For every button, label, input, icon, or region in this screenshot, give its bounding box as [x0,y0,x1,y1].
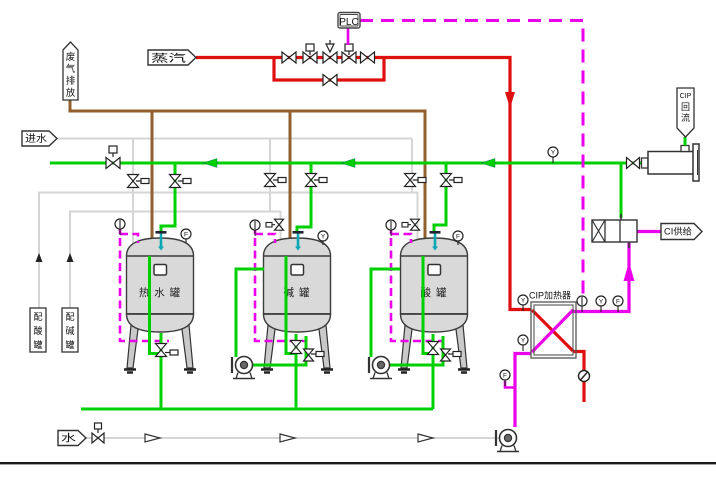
tank T2 top nozzle [297,233,300,247]
heater box [531,302,576,358]
wire gray riser tank3 upper [411,139,413,193]
bottom border line [0,462,716,464]
gauge heater out1 [581,301,583,312]
valve row green tank1 [170,175,181,188]
wire green stub CIP-return [684,137,687,146]
svg-text:进水: 进水 [25,133,47,145]
wire tank2 pump discharge [253,336,306,365]
svg-text:配: 配 [33,312,42,322]
svg-text:碱: 碱 [65,326,74,336]
wire tank2 front pipe [286,256,296,354]
valve cylinder inlet [627,158,640,169]
flow arrow water 3 [418,434,433,442]
svg-text:Y: Y [521,297,526,304]
arrow left green 2 [341,159,355,168]
arrow up on line A [36,253,43,262]
valve green main inline [106,158,120,169]
svg-text:Y: Y [599,298,604,305]
valve tank2 drain [291,341,302,354]
valve tank3 aux [441,349,451,361]
wire tank1 drain [160,333,163,409]
gauge heater cold [522,340,524,351]
svg-text:Y: Y [321,233,326,240]
gauge tank3 right [457,236,459,245]
valve steam V2 [303,52,317,63]
wire heater cold diagonal [532,310,573,352]
wire gray riser tank1 [132,139,134,244]
gauge tank3 left [390,225,392,236]
valve tank1 drain [156,344,167,357]
valve row green tank2 [306,174,317,187]
svg-text:PLC: PLC [339,17,358,28]
wire bottom water line [86,437,499,439]
svg-text:F: F [616,298,620,305]
wire steam bypass [274,58,384,81]
svg-text:酸: 酸 [33,326,42,336]
valve water inlet [92,433,104,443]
svg-text:CIP加热器: CIP加热器 [529,290,571,301]
valve row gray tank3 [405,174,416,187]
label alkali prep tank [62,308,78,352]
arrow up magenta [624,262,635,281]
flag inlet water [22,131,57,146]
wire PLC signal solid [347,28,350,45]
gauge tank2 right [322,236,324,245]
flag vent [63,42,78,100]
wire vent header [70,100,425,242]
label PLC [338,13,360,29]
svg-text:热 水 罐: 热 水 罐 [139,286,181,299]
tank T1 shell [124,238,196,373]
wire tank3 drain [432,334,435,409]
svg-text:回: 回 [681,102,690,112]
wire heater red outlet [573,352,584,403]
svg-text:放: 放 [66,87,76,99]
wire instrument dashed tank3 [390,229,393,234]
valve row green tank3 [441,174,452,187]
valve ball on red outlet [579,371,590,382]
wire vent drop tank2 [289,111,292,242]
svg-text:F: F [456,233,460,240]
svg-text:排: 排 [66,75,76,87]
arrow left green 3 [481,159,495,168]
wire tank3 pump suction [371,269,400,357]
flag CIP supply [661,224,702,240]
gauge tank2 left [254,225,256,236]
svg-text:罐: 罐 [33,339,42,350]
pump P3 tank3 [368,357,370,373]
svg-text:罐: 罐 [65,339,74,350]
flag CIP return [677,88,694,137]
flag water [58,431,86,446]
cylinder inlet flange [642,158,649,168]
valve steam V5 [361,52,375,63]
pump CIP [495,430,497,446]
wire gauge elbow [505,381,515,388]
wire PLC signal dashed [360,21,583,297]
valve nozzle gray tank2 [266,223,272,228]
svg-text:蒸汽: 蒸汽 [151,51,187,64]
gauge heater out2 [600,301,602,312]
tank T3 top nozzle [434,233,437,247]
wire tank3 front pipe [423,256,433,354]
wire vent drop tank1 [151,111,154,242]
wire CIP pump riser [515,354,531,428]
wire tank2 pump suction [236,269,264,357]
svg-text:气: 气 [66,63,76,75]
wire tank3 pump discharge [390,336,443,365]
wire heater hot diagonal [532,310,573,351]
wire green main [50,162,646,165]
wire alkali-prep supply line B [70,212,281,309]
wire dosing to CIP-supply flag [637,230,661,233]
svg-text:CI供给: CI供给 [664,226,692,237]
label acid prep tank [30,308,46,352]
svg-text:流: 流 [681,112,690,123]
flow arrow water 2 [280,434,295,442]
wire tank1 front pipe [150,256,162,354]
gauge green main [552,152,554,163]
svg-text:F: F [503,372,507,379]
tank T3 shell [398,238,470,373]
wire green riser tank3 [434,163,446,232]
pump P2 tank2 [231,357,233,373]
svg-text:Y: Y [521,337,526,344]
svg-text:Y: Y [551,149,556,156]
wire green bottom header [81,408,433,411]
wire instrument dashed tank2 [254,229,257,234]
arrow down steam [505,92,515,108]
valve tank2 aux [304,349,314,361]
flag steam [148,50,196,65]
valve tank3 drain [428,342,439,355]
valve steam V4 PLC-controlled [342,52,356,63]
gauge pump line [504,375,506,386]
arrow left green 1 [203,159,217,168]
svg-text:酸 罐: 酸 罐 [421,286,448,299]
wire instrument dashed tank1 [119,229,122,234]
wire acid-prep supply line A [39,193,418,309]
tank T2 shell [261,238,333,373]
gauge heater inlet [522,300,524,311]
svg-text:F: F [184,231,188,238]
valve row gray tank2 [265,174,276,187]
gauge tank1 right [185,234,187,243]
svg-text:水: 水 [61,433,76,445]
valve nozzle gray tank3 [402,223,408,228]
valve steam bypass V6 [323,75,337,86]
svg-text:碱 罐: 碱 罐 [284,286,311,299]
flow arrow water 1 [145,434,160,442]
svg-text:配: 配 [65,312,74,322]
wire green drop to dosing unit [620,163,623,218]
tank T1 top nozzle [160,233,163,247]
wire gray riser tank2 upper [269,139,271,213]
dosing unit [592,220,637,242]
wire green riser tank1 [161,163,175,232]
wire green riser tank2 [297,163,311,232]
wire inlet-water header [56,138,412,140]
wire tank2 drain [295,334,298,409]
gauge heater out3 [617,301,619,312]
svg-text:废: 废 [66,51,76,63]
valve steam safety V3 [323,52,337,63]
gauge tank1 left [119,224,121,235]
svg-text:CIP: CIP [680,93,692,100]
arrow up on line B [67,253,74,262]
valve row gray tank1 [128,175,139,188]
wire steam main [196,58,531,310]
cylinder body [648,152,694,175]
wire heater magenta outlet [573,243,629,312]
valve steam V1 [282,52,296,63]
